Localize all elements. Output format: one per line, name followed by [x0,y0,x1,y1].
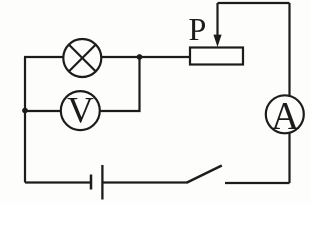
svg-text:V: V [67,91,94,132]
node junction top (lamp/voltmeter/rheostat) [137,54,143,60]
voltmeter V [61,91,100,130]
potentiometer P wiper arrow [213,3,221,47]
wire bottom left [25,181,90,183]
wire lamp to rheostat [101,56,191,58]
switch S lever [187,166,222,183]
svg-text:A: A [271,95,299,138]
node junction left (left rail / voltmeter) [22,108,28,114]
wire battery to switch [103,181,188,183]
battery [91,165,102,200]
wire voltmeter right up to junction [100,57,140,111]
wire wiper to top-right corner [218,2,290,4]
wire top-left horizontal [24,56,64,58]
ammeter A [266,95,304,133]
svg-text:P: P [189,11,207,47]
wire right vertical upper [288,3,290,97]
wire voltmeter left [24,110,61,112]
wire right vertical lower [288,132,290,183]
potentiometer P body [190,48,243,65]
wire bottom right [225,182,290,184]
wire left vertical [24,57,26,183]
lamp [63,39,101,77]
